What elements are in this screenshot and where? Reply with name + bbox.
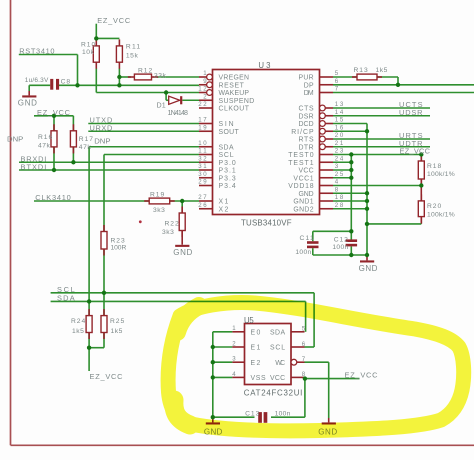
svg-text:6: 6 — [302, 341, 306, 348]
svg-text:100n: 100n — [332, 244, 348, 251]
svg-text:DP: DP — [304, 82, 314, 89]
svg-text:16: 16 — [335, 124, 344, 131]
svg-text:R16: R16 — [38, 134, 52, 141]
svg-text:18: 18 — [335, 194, 344, 201]
svg-text:GND: GND — [18, 98, 38, 107]
svg-text:7: 7 — [302, 356, 306, 363]
svg-text:SOUT: SOUT — [219, 129, 240, 136]
svg-text:D1: D1 — [157, 102, 166, 110]
svg-text:VDD18: VDD18 — [288, 183, 314, 190]
svg-text:CAT24FC32UI: CAT24FC32UI — [244, 388, 303, 397]
svg-text:GND: GND — [173, 248, 193, 257]
svg-text:14: 14 — [335, 109, 344, 116]
svg-text:GND: GND — [299, 191, 315, 198]
svg-text:10: 10 — [198, 140, 207, 147]
svg-text:23: 23 — [335, 148, 344, 155]
svg-text:PUR: PUR — [299, 75, 315, 82]
svg-text:P3.1: P3.1 — [219, 168, 237, 175]
svg-text:SCL: SCL — [270, 345, 286, 352]
svg-text:VCC1: VCC1 — [293, 175, 314, 182]
svg-text:12: 12 — [198, 86, 207, 93]
svg-text:GND: GND — [359, 264, 378, 273]
svg-text:6: 6 — [335, 78, 339, 85]
svg-text:1k5: 1k5 — [72, 328, 84, 335]
svg-text:27: 27 — [198, 194, 207, 201]
svg-text:R13: R13 — [354, 67, 368, 74]
svg-text:100k/1%: 100k/1% — [427, 211, 455, 218]
svg-text:100k/1%: 100k/1% — [427, 171, 455, 178]
svg-text:5: 5 — [335, 70, 339, 77]
svg-text:E2: E2 — [251, 360, 261, 367]
svg-text:25: 25 — [335, 171, 344, 178]
svg-text:15k: 15k — [126, 52, 139, 59]
svg-text:2: 2 — [203, 93, 207, 100]
svg-text:SDA: SDA — [270, 330, 286, 337]
svg-text:SCL: SCL — [219, 152, 235, 159]
svg-text:13: 13 — [335, 101, 344, 108]
svg-text:UDSR: UDSR — [399, 108, 423, 117]
svg-text:P3.0: P3.0 — [219, 160, 237, 167]
svg-text:C12: C12 — [334, 236, 348, 243]
svg-text:GND1: GND1 — [293, 199, 314, 206]
svg-text:3: 3 — [335, 163, 339, 170]
svg-text:DNP: DNP — [94, 136, 110, 145]
svg-text:R12: R12 — [138, 67, 152, 74]
svg-text:C8: C8 — [61, 79, 71, 86]
svg-text:8: 8 — [335, 186, 339, 193]
svg-text:17: 17 — [198, 117, 207, 124]
svg-text:R11: R11 — [126, 44, 140, 51]
svg-text:VCC: VCC — [299, 168, 315, 175]
svg-text:47k: 47k — [79, 144, 92, 151]
svg-text:EZ_VCC: EZ_VCC — [400, 147, 431, 156]
svg-text:TUSB3410VF: TUSB3410VF — [241, 218, 292, 227]
svg-text:WC: WC — [275, 360, 285, 367]
svg-text:VSS: VSS — [251, 375, 267, 382]
svg-text:RESET: RESET — [219, 82, 245, 89]
svg-text:7: 7 — [335, 86, 339, 93]
svg-text:47k: 47k — [38, 142, 51, 149]
svg-text:VREGEN: VREGEN — [219, 75, 250, 82]
svg-text:URXD: URXD — [90, 123, 113, 132]
svg-text:DNP: DNP — [7, 135, 23, 144]
svg-text:E1: E1 — [251, 345, 261, 352]
svg-text:29: 29 — [198, 179, 207, 186]
svg-text:R25: R25 — [110, 318, 124, 325]
svg-text:RTS: RTS — [299, 137, 315, 144]
svg-text:1u/6.3V: 1u/6.3V — [25, 77, 49, 84]
svg-text:R19: R19 — [150, 191, 164, 198]
svg-text:1k5: 1k5 — [376, 67, 388, 74]
svg-text:SIN: SIN — [219, 121, 235, 128]
svg-text:24: 24 — [335, 155, 344, 162]
svg-text:CLKOUT: CLKOUT — [219, 106, 250, 113]
svg-text:5: 5 — [302, 326, 306, 333]
svg-text:1N4148: 1N4148 — [168, 109, 189, 117]
svg-text:U5: U5 — [244, 316, 254, 325]
svg-text:28: 28 — [335, 202, 344, 209]
svg-text:R17: R17 — [79, 136, 93, 143]
svg-text:P3.3: P3.3 — [219, 175, 237, 182]
svg-text:1k5: 1k5 — [111, 328, 123, 335]
svg-text:1: 1 — [203, 70, 207, 77]
svg-text:EZ_VCC: EZ_VCC — [345, 371, 379, 380]
svg-text:100n: 100n — [295, 249, 311, 256]
svg-text:32: 32 — [198, 155, 207, 162]
svg-text:33k: 33k — [154, 72, 167, 79]
svg-text:15: 15 — [335, 117, 344, 124]
svg-text:100n: 100n — [275, 410, 291, 417]
svg-text:2: 2 — [232, 340, 236, 347]
svg-text:3k3: 3k3 — [162, 229, 174, 236]
svg-text:EZ_VCC: EZ_VCC — [37, 108, 71, 117]
svg-text:11: 11 — [198, 148, 207, 155]
svg-text:C11: C11 — [300, 235, 314, 242]
svg-text:31: 31 — [198, 163, 207, 170]
svg-text:TEST0: TEST0 — [288, 152, 314, 159]
svg-text:CLK3410: CLK3410 — [35, 193, 70, 202]
svg-text:SUSPEND: SUSPEND — [219, 98, 255, 105]
svg-text:100R: 100R — [111, 245, 127, 252]
svg-text:21: 21 — [335, 140, 344, 147]
svg-text:WAKEUP: WAKEUP — [219, 90, 250, 97]
svg-text:1: 1 — [232, 325, 236, 332]
svg-text:SDA: SDA — [57, 294, 75, 303]
svg-text:R10: R10 — [81, 41, 95, 48]
svg-text:R18: R18 — [427, 163, 441, 170]
svg-text:R22: R22 — [165, 220, 179, 227]
svg-text:R20: R20 — [427, 203, 441, 210]
svg-text:DTR: DTR — [299, 144, 315, 151]
svg-text:EZ_VCC: EZ_VCC — [90, 372, 124, 381]
svg-text:22: 22 — [198, 101, 207, 108]
svg-text:9: 9 — [203, 78, 207, 85]
svg-text:X1: X1 — [219, 199, 229, 206]
svg-text:19: 19 — [198, 124, 207, 131]
svg-text:TEST1: TEST1 — [288, 160, 314, 167]
svg-text:3: 3 — [232, 356, 236, 363]
svg-text:CTS: CTS — [299, 106, 315, 113]
svg-text:DSR: DSR — [299, 113, 315, 120]
svg-text:30: 30 — [198, 171, 207, 178]
svg-text:3k3: 3k3 — [153, 207, 165, 214]
svg-text:20: 20 — [335, 132, 344, 139]
svg-text:10k: 10k — [82, 49, 95, 56]
svg-text:R23: R23 — [111, 237, 125, 244]
svg-text:R24: R24 — [71, 318, 85, 325]
svg-text:P3.4: P3.4 — [219, 183, 237, 190]
svg-text:BTXDI: BTXDI — [21, 162, 47, 171]
svg-text:26: 26 — [198, 202, 207, 209]
svg-text:RI/CP: RI/CP — [291, 129, 314, 136]
svg-text:VCC: VCC — [270, 375, 286, 382]
svg-text:DM: DM — [304, 90, 314, 97]
svg-text:4: 4 — [232, 371, 236, 378]
svg-text:RST3410: RST3410 — [19, 47, 54, 56]
svg-text:4: 4 — [335, 179, 339, 186]
svg-text:E0: E0 — [251, 330, 261, 337]
svg-text:X2: X2 — [219, 206, 229, 213]
svg-text:SDA: SDA — [219, 144, 235, 151]
svg-text:EZ_VCC: EZ_VCC — [97, 16, 131, 25]
svg-text:C13: C13 — [245, 410, 259, 417]
svg-text:DCD: DCD — [299, 121, 315, 128]
svg-text:GND2: GND2 — [293, 206, 314, 213]
